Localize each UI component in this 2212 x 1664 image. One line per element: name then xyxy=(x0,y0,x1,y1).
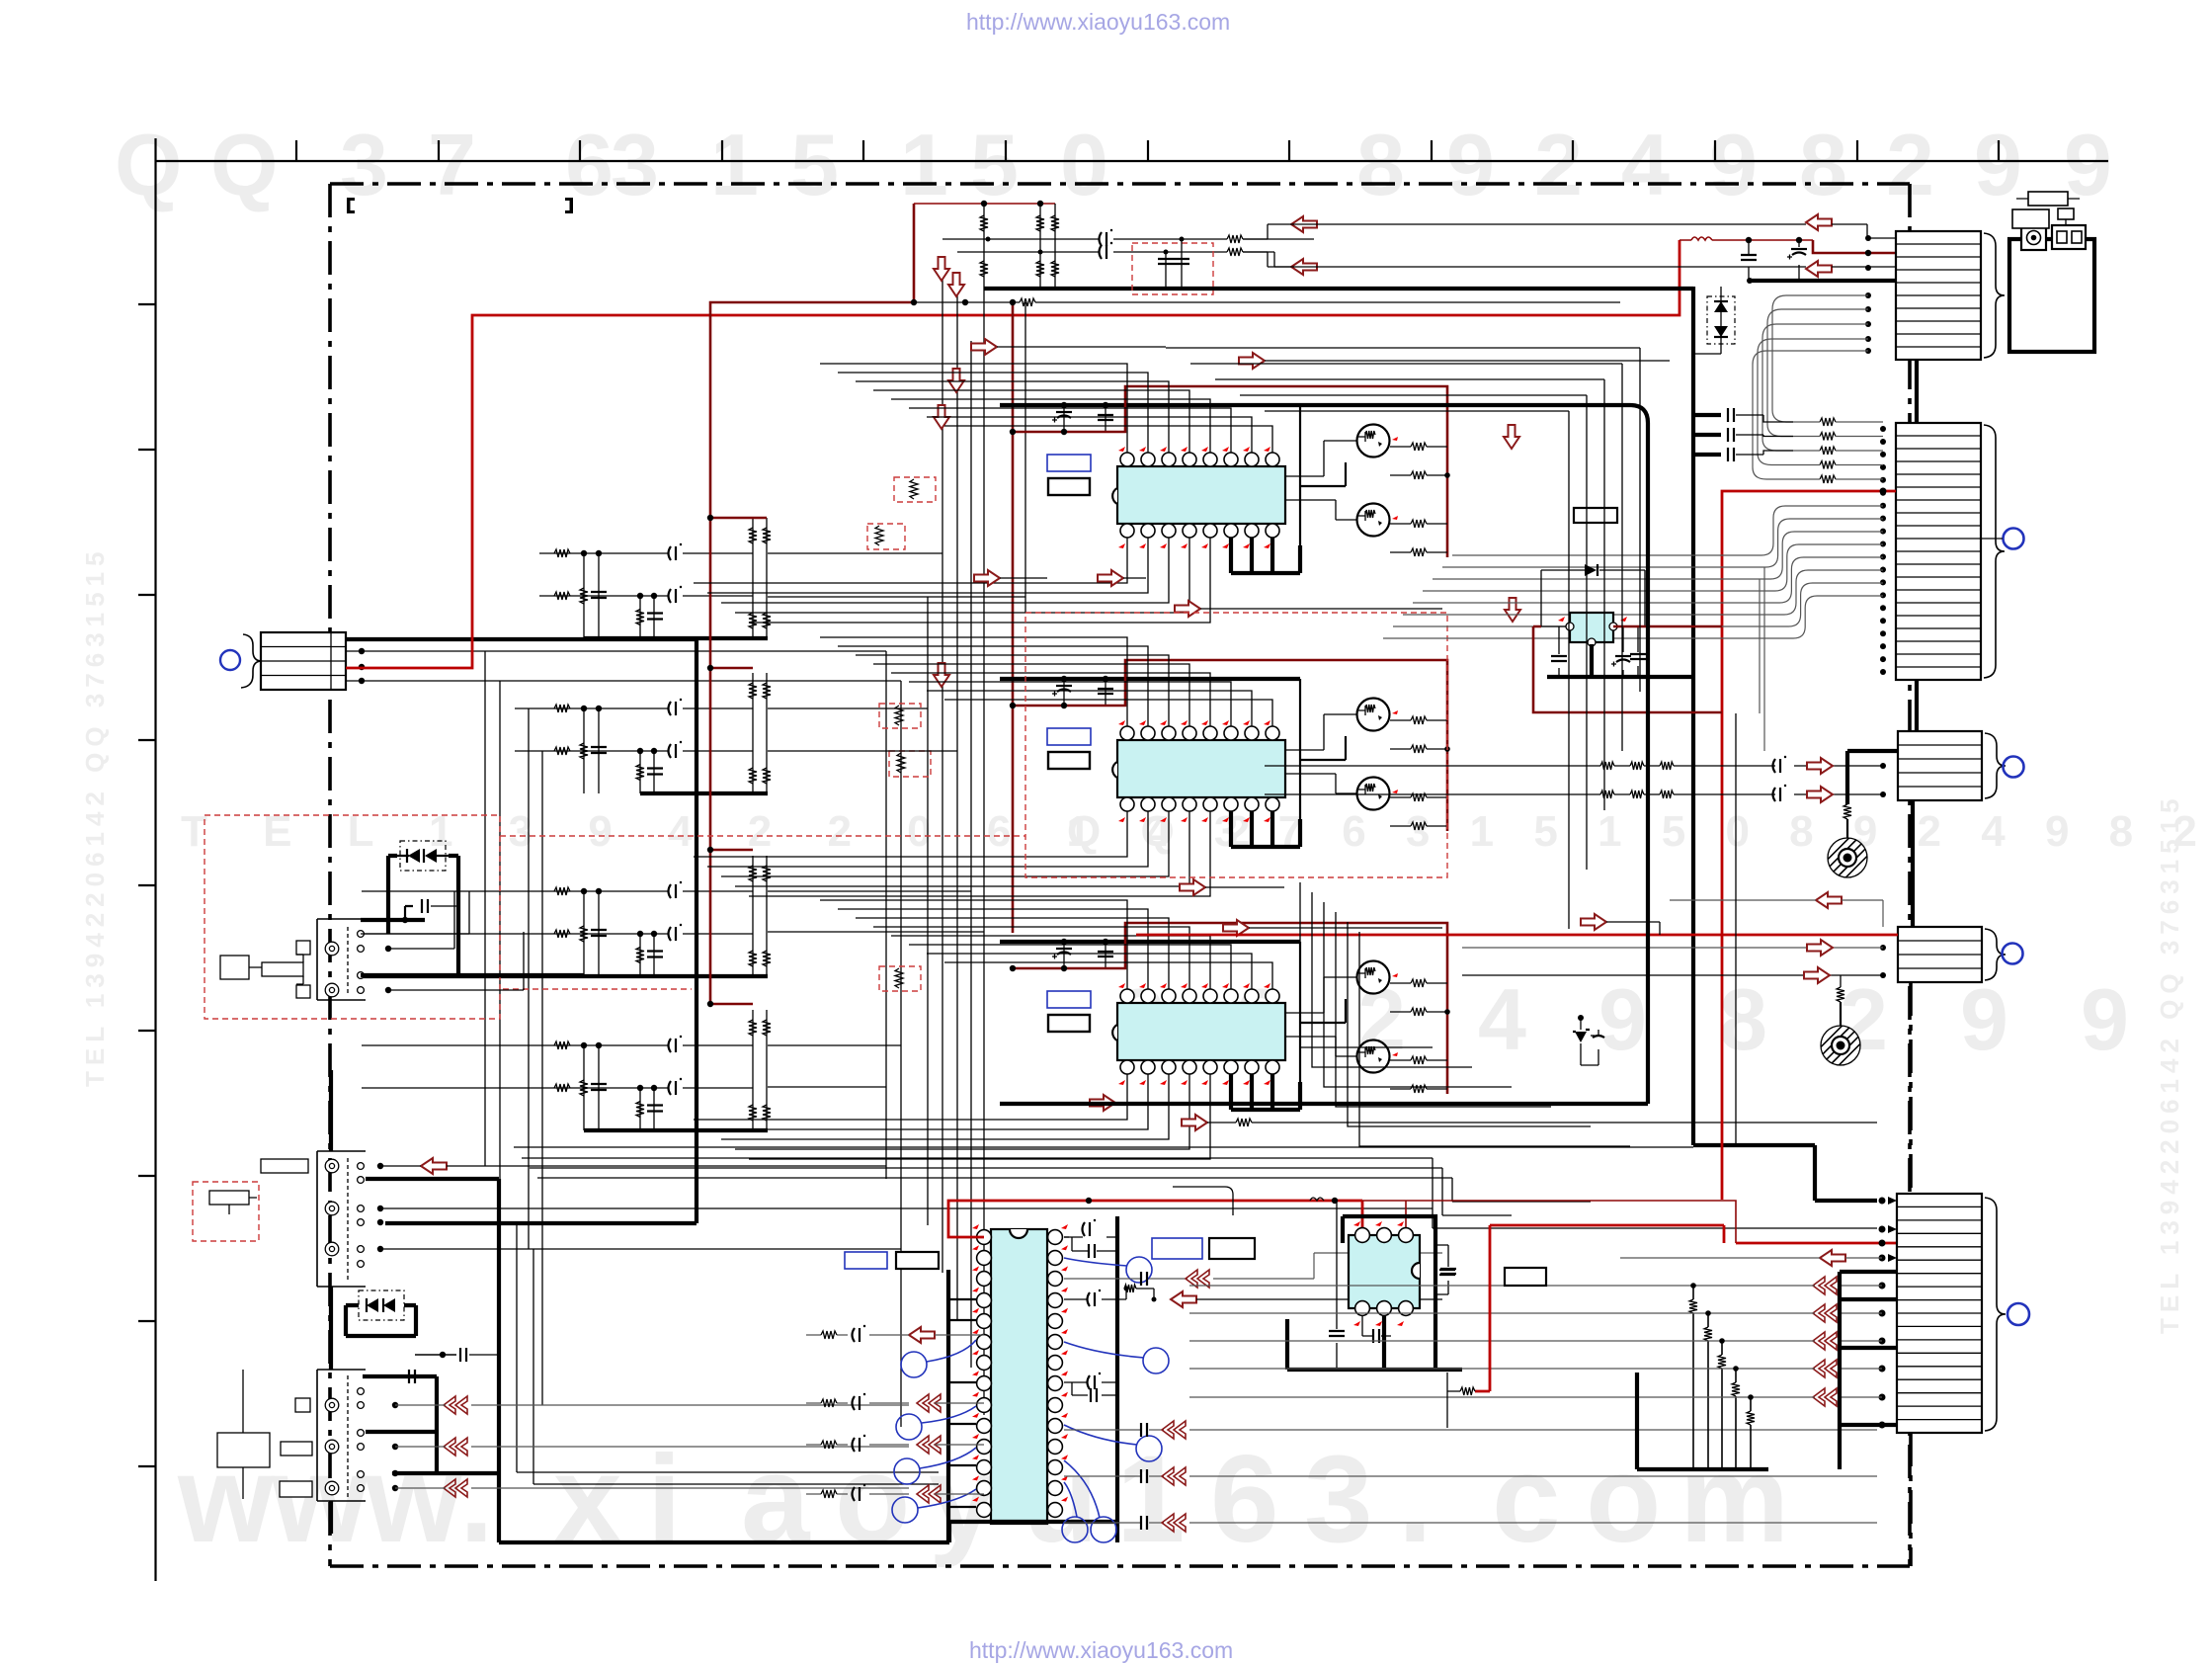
wire red feed xyxy=(346,240,1679,668)
label boxes xyxy=(261,1159,308,1173)
wire jack outputs xyxy=(361,891,469,949)
fan CN-mid lower pins xyxy=(1452,506,1883,555)
wire red U4 feed xyxy=(948,1201,1362,1237)
connector CN-L xyxy=(261,632,346,690)
svg-text:.: . xyxy=(1398,1431,1433,1568)
bracket left xyxy=(347,198,355,213)
svg-text:9: 9 xyxy=(1598,970,1647,1068)
conn 2pin xyxy=(2052,225,2086,249)
node blue circle xyxy=(220,650,240,670)
pin dots CN-top xyxy=(1865,292,1871,298)
wire jack to U4 xyxy=(517,1222,939,1484)
IC body xyxy=(1117,1003,1285,1060)
caps into CN-mid xyxy=(1693,413,1721,417)
resistors into CN-mid xyxy=(1820,418,1836,426)
ecap row xyxy=(1064,1298,1088,1300)
pot VR1 xyxy=(1911,800,1915,927)
dashed box bottom-left xyxy=(193,1182,259,1241)
thick rail to bus xyxy=(1300,405,1648,1104)
thick bus x1714 xyxy=(1693,287,1877,1201)
diode pair D4 xyxy=(400,841,446,871)
arrow left top2 xyxy=(1291,259,1317,275)
svg-text:o: o xyxy=(1586,1431,1661,1568)
svg-text:m: m xyxy=(1679,1431,1789,1568)
caps regulator xyxy=(1559,626,1592,677)
wire maroon antenna feed xyxy=(1679,239,1813,241)
frame dash-dot right detail xyxy=(1909,982,1913,1566)
svg-text:Q: Q xyxy=(210,116,278,213)
wire V+ maroon xyxy=(1013,386,1447,557)
pot VR2 xyxy=(1837,987,1844,1002)
dashed box small pair U2 xyxy=(879,704,921,728)
ruler border xyxy=(138,138,2108,1581)
label boxes xyxy=(1047,728,1091,745)
main unit box xyxy=(2009,239,2094,352)
connector CN-S1 xyxy=(1898,731,1982,800)
staircase mid-right xyxy=(1166,348,1640,692)
filter network xyxy=(515,708,753,751)
filter network xyxy=(362,1045,753,1088)
pin dots CN-mid xyxy=(1880,426,1886,432)
connector CN-bottom xyxy=(1897,1194,1982,1433)
svg-text:4: 4 xyxy=(1621,116,1670,213)
IC U4 xyxy=(991,1229,1047,1524)
jack group lowest xyxy=(317,1370,366,1501)
dashed box small pair U1 xyxy=(894,477,936,502)
filter network xyxy=(539,553,753,596)
dashed box top caps xyxy=(1132,243,1213,294)
chevrons into CN-bottom xyxy=(1813,1277,1837,1294)
IC body xyxy=(1117,740,1285,797)
label box xyxy=(1574,508,1617,523)
thick wiring jack top xyxy=(361,856,458,975)
left side chevrons U4 xyxy=(917,1394,941,1412)
horizontal connectors filters to bundle xyxy=(768,553,1025,1087)
svg-text:TEL 13942206142 QQ 37631515: TEL 13942206142 QQ 37631515 xyxy=(2155,793,2184,1335)
capacitor decoupling xyxy=(1064,679,1106,706)
wire fan tail to CN-S1 xyxy=(1760,567,1764,751)
svg-text:5: 5 xyxy=(790,116,839,213)
wire maroon regulator xyxy=(1533,625,1722,628)
wire rail IC xyxy=(1000,403,1300,407)
svg-text:1: 1 xyxy=(1116,1431,1186,1568)
regulator U6 xyxy=(1570,613,1613,642)
wire maroon to CN-top xyxy=(1813,240,1896,253)
wires into CN-S1 xyxy=(1265,765,1883,767)
thick rail CN-top xyxy=(1750,279,1896,283)
node blue CN-mid xyxy=(2004,529,2024,549)
thick wiring jack bottom xyxy=(363,1376,499,1473)
caps U5 xyxy=(1337,1201,1373,1336)
chevron outputs xyxy=(444,1396,467,1414)
fan CN-top lower pins xyxy=(1772,295,1868,422)
svg-text:a: a xyxy=(741,1431,811,1568)
svg-text:TEL 13942206142 QQ 37631515: TEL 13942206142 QQ 37631515 xyxy=(80,546,110,1088)
svg-text:0: 0 xyxy=(1060,116,1108,213)
transistor pair xyxy=(1357,961,1390,994)
wires into CN-S2 xyxy=(1136,934,1898,937)
arrow left right-top xyxy=(1806,214,1832,230)
coax jack xyxy=(2021,225,2046,250)
gray long rows U4 left xyxy=(806,1334,909,1336)
svg-text:8: 8 xyxy=(1356,116,1405,213)
IC body xyxy=(1117,466,1285,524)
wire y306 xyxy=(914,301,1620,303)
wire red CN-mid xyxy=(1722,491,1896,1200)
svg-text:2: 2 xyxy=(1534,116,1583,213)
svg-text:3: 3 xyxy=(611,116,659,213)
svg-text:o: o xyxy=(835,1431,910,1568)
svg-text:c: c xyxy=(1492,1431,1561,1568)
label boxes xyxy=(1047,991,1091,1008)
resistor component xyxy=(2016,198,2080,200)
wire red to CN-bottom xyxy=(1736,1242,1981,1245)
diode D2 xyxy=(1541,570,1645,626)
wire thick bus x705 xyxy=(385,639,696,1223)
wire bus maroon left xyxy=(710,204,914,1004)
small boxes left of jacks xyxy=(220,956,249,979)
caps on U4 right pins xyxy=(1064,1236,1117,1238)
svg-text:4: 4 xyxy=(1478,970,1526,1068)
fan to CN-mid lower xyxy=(1300,882,1433,1047)
jack group top (in dashed box) xyxy=(317,919,366,1000)
svg-text:w: w xyxy=(365,1431,462,1568)
wire vertical 1757 xyxy=(1735,713,1737,1147)
thick frame U4 xyxy=(949,1216,1117,1542)
svg-text:9: 9 xyxy=(1446,116,1495,213)
dashed box left big xyxy=(205,815,500,1019)
thick bus U4 left xyxy=(946,1270,950,1542)
frame thick segments xyxy=(329,1070,333,1534)
component box xyxy=(2012,209,2049,228)
svg-text:9: 9 xyxy=(1960,970,2008,1068)
label boxes bottom-left xyxy=(295,1398,310,1412)
svg-text:7: 7 xyxy=(428,116,476,213)
svg-text:.: . xyxy=(459,1431,494,1568)
wire rail IC xyxy=(1000,940,1300,944)
svg-text:8: 8 xyxy=(1719,970,1767,1068)
label boxes xyxy=(1047,455,1091,471)
cap C-jack xyxy=(440,1352,446,1358)
connector CN-top xyxy=(1896,231,1981,360)
svg-text:1: 1 xyxy=(710,116,759,213)
blue test wires U4 xyxy=(901,1352,927,1377)
bracket right xyxy=(565,198,573,213)
svg-text:9: 9 xyxy=(2081,970,2129,1068)
arrow right group mid xyxy=(971,339,997,355)
wire bus maroon mid xyxy=(1012,301,1015,933)
wire rail IC xyxy=(1000,677,1300,681)
thick frame U5 xyxy=(1343,1216,1435,1370)
svg-text:x: x xyxy=(553,1431,622,1568)
capacitor decoupling xyxy=(1064,942,1106,968)
transistor pair xyxy=(1357,425,1390,458)
label box CN-bottom xyxy=(1505,1268,1546,1286)
IC U5 xyxy=(1349,1235,1420,1308)
pin dots CN-bottom xyxy=(1879,1255,1886,1262)
plain cap rows with chevrons xyxy=(1064,1429,1141,1431)
connector CN-S2 xyxy=(1898,927,1982,982)
ecap pair row xyxy=(1064,1382,1117,1395)
connector spine segments xyxy=(1915,360,1919,731)
svg-text:Q: Q xyxy=(115,116,182,213)
labels near U5 xyxy=(1152,1238,1202,1259)
svg-text:1: 1 xyxy=(900,116,948,213)
jack group bottom xyxy=(317,1151,366,1287)
arrow right mid xyxy=(1581,914,1606,930)
svg-text:9: 9 xyxy=(1974,116,2022,213)
inductor L2 xyxy=(1310,1198,1324,1201)
thick bus CN-bottom xyxy=(1637,1373,1768,1469)
svg-text:9: 9 xyxy=(1709,116,1758,213)
svg-text:3: 3 xyxy=(1304,1431,1373,1568)
board outline frame xyxy=(330,184,1910,1566)
cap near label xyxy=(1446,1267,1448,1269)
wire V+ maroon xyxy=(1013,660,1447,831)
wire red riser xyxy=(1475,1225,1724,1391)
dashed box U2 xyxy=(1025,613,1447,877)
resistor network top xyxy=(914,203,1055,205)
svg-text:6: 6 xyxy=(1210,1431,1279,1568)
label boxes U4 xyxy=(845,1252,887,1269)
zener D3 xyxy=(1581,1018,1598,1065)
arrow down group xyxy=(934,257,949,281)
svg-text:8: 8 xyxy=(1799,116,1847,213)
svg-text:i: i xyxy=(647,1431,682,1568)
connector CN-mid xyxy=(1896,423,1981,680)
thick gnd rail top xyxy=(984,287,1693,291)
wire V+ maroon xyxy=(1013,923,1447,1094)
row: to chevron right xyxy=(1064,1258,1149,1279)
filter network xyxy=(362,891,753,934)
arrow left top1 xyxy=(1291,216,1317,232)
diode pair D5 xyxy=(359,1290,404,1320)
svg-text:5: 5 xyxy=(970,116,1019,213)
transistor pair xyxy=(1357,699,1390,731)
wire bundle vertical xyxy=(485,651,542,1405)
svg-text:http://www.xiaoyu163.com: http://www.xiaoyu163.com xyxy=(966,9,1230,35)
dashed box small U3 xyxy=(879,966,921,991)
wire long horizontals xyxy=(1000,1102,1648,1106)
wire CN-L outputs xyxy=(359,648,365,654)
dual diode D1 xyxy=(1707,296,1735,344)
capacitor decoupling xyxy=(1064,405,1106,432)
resistor ladder CN-bottom xyxy=(1189,1285,1815,1287)
svg-text:http://www.xiaoyu163.com: http://www.xiaoyu163.com xyxy=(969,1637,1233,1663)
